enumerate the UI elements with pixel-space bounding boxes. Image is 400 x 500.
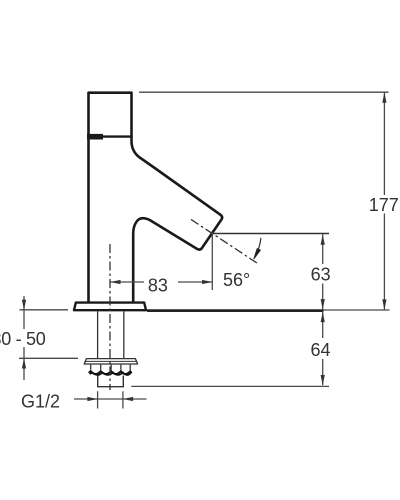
177 top arrowhead: [382, 93, 386, 103]
svg-text:177: 177: [369, 195, 399, 215]
0-50 top extension line: [20, 309, 69, 311]
threaded shank right line: [123, 312, 125, 359]
spout axis dash-dot line: [191, 219, 258, 263]
63 dimension line: [322, 234, 324, 264]
63 bottom arrowhead: [321, 299, 325, 309]
svg-text:83: 83: [148, 276, 168, 296]
0-50 dimension line upper part: [23, 296, 25, 329]
64 dimension line: [322, 312, 324, 338]
top extension line from knob to 177 dimension: [139, 91, 389, 93]
G1/2 right arrowhead pointing left: [123, 397, 133, 401]
svg-text:64: 64: [310, 340, 330, 360]
64 top arrowhead: [321, 312, 325, 322]
G1/2 left extension tick: [97, 391, 99, 408]
angle arc arrowhead: [254, 249, 260, 259]
83 left arrowhead: [110, 280, 120, 284]
0-50 bottom extension line: [19, 357, 78, 359]
0-50 dimension line lower part: [23, 347, 25, 380]
83 dimension line: [110, 281, 144, 283]
knob bottom line: [87, 135, 132, 137]
angle arc: [256, 238, 261, 255]
G1/2 left arrowhead pointing right: [87, 397, 97, 401]
177 dimension line: [383, 92, 385, 195]
faucet body outline: [89, 93, 223, 303]
svg-text:56°: 56°: [223, 270, 250, 290]
83 right arrowhead: [202, 280, 212, 284]
G1/2 right extension tick: [122, 391, 124, 408]
63 top arrowhead: [321, 235, 325, 245]
0-50 upper arrowhead pointing down: [22, 300, 26, 310]
horizontal reference line from spout tip: [212, 233, 329, 235]
nut body: [98, 376, 124, 387]
bottom extension line to 64 dimension: [131, 385, 329, 387]
vertical extension line from spout tip: [211, 233, 213, 291]
177 bottom arrowhead: [382, 299, 386, 309]
svg-text:G1/2: G1/2: [21, 391, 60, 411]
svg-text:30 - 50: 30 - 50: [0, 329, 46, 349]
countertop thick line right: [147, 309, 324, 312]
knob lever tab: [87, 134, 103, 140]
castellated nut scalloped edge front: [89, 371, 132, 374]
threaded shank left line: [97, 312, 99, 359]
castellated nut teeth: [91, 365, 131, 370]
body centerline dash-dot: [109, 244, 111, 390]
G1/2 dimension line: [74, 398, 147, 400]
svg-text:63: 63: [311, 264, 331, 284]
mounting flange: [74, 303, 146, 311]
castellated nut scalloped edge back: [90, 372, 131, 375]
64 bottom arrowhead: [321, 375, 325, 385]
0-50 lower arrowhead pointing up: [22, 358, 26, 368]
locking washer: [84, 359, 137, 364]
countertop thin line to 177 dimension: [324, 309, 390, 311]
